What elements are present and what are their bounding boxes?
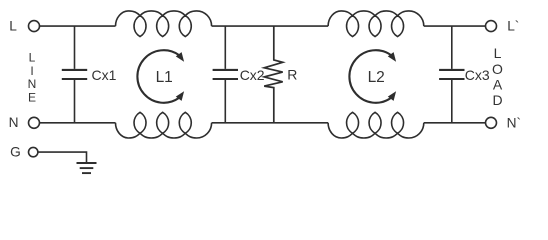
resistor R <box>264 26 283 123</box>
label LINE <box>28 50 37 104</box>
svg-text:A: A <box>493 76 503 92</box>
capacitor Cx3 plates <box>439 70 464 79</box>
wire top rail left <box>40 25 116 27</box>
svg-text:L`: L` <box>507 19 519 34</box>
node G terminal <box>29 147 38 156</box>
arrowhead L1 bottom <box>176 91 184 101</box>
svg-text:N: N <box>9 115 19 130</box>
capacitor Cx2 plates <box>213 70 238 79</box>
svg-text:O: O <box>492 61 503 77</box>
label LOAD <box>492 45 503 108</box>
arrowhead L2 bottom <box>388 91 396 101</box>
svg-text:Cx2: Cx2 <box>240 67 265 83</box>
inductor L2 top winding <box>328 11 424 37</box>
capacitor Cx1 plates <box>62 70 87 79</box>
node N terminal <box>29 117 40 128</box>
capacitor Cx2 top lead <box>224 26 226 69</box>
inductor L1 bottom winding <box>116 112 212 138</box>
node N' terminal <box>486 117 497 128</box>
arrowhead L1 top <box>176 52 184 62</box>
arrowhead L2 top <box>388 52 396 62</box>
svg-text:L2: L2 <box>368 69 385 86</box>
wire bottom rail middle <box>212 122 329 124</box>
flux arrow circle L2 <box>349 50 390 103</box>
inductor L2 bottom winding <box>328 112 424 138</box>
capacitor Cx2 bottom lead <box>224 80 226 123</box>
svg-text:N`: N` <box>507 115 521 130</box>
node L' terminal <box>486 21 497 32</box>
svg-text:I: I <box>30 64 33 78</box>
svg-text:L1: L1 <box>156 69 173 86</box>
svg-text:N: N <box>28 77 37 91</box>
inductor L1 top winding <box>116 11 212 37</box>
capacitor Cx1 bottom lead <box>74 80 76 123</box>
svg-text:D: D <box>492 92 502 108</box>
wire ground lead <box>38 152 87 163</box>
wire bottom rail right <box>424 122 486 124</box>
svg-text:Cx1: Cx1 <box>92 67 117 83</box>
svg-text:E: E <box>28 91 36 105</box>
capacitor Cx3 bottom lead <box>451 80 453 123</box>
wire bottom rail left <box>40 122 116 124</box>
svg-text:L: L <box>29 50 36 64</box>
svg-text:G: G <box>10 145 21 160</box>
ground symbol <box>77 163 97 173</box>
flux arrow circle L1 <box>137 50 178 103</box>
node L terminal <box>29 21 40 32</box>
svg-text:L: L <box>9 18 17 33</box>
svg-text:R: R <box>287 67 297 83</box>
svg-text:L: L <box>494 45 502 61</box>
capacitor Cx1 top lead <box>74 26 76 69</box>
svg-text:Cx3: Cx3 <box>465 67 490 83</box>
wire top rail middle <box>212 25 329 27</box>
wire top rail right <box>424 25 486 27</box>
capacitor Cx3 top lead <box>451 26 453 69</box>
